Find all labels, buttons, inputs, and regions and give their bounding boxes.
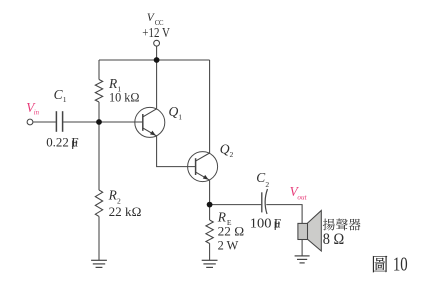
wire R2 bottom xyxy=(98,216,100,260)
wire RE bottom xyxy=(209,243,211,260)
node junction at Vcc rail xyxy=(154,57,160,63)
svg-text:0.22: 0.22 xyxy=(46,134,69,149)
caption figure: tu glyph xyxy=(373,256,388,273)
ground below RE xyxy=(202,260,218,267)
wire Q2 emitter down to output node xyxy=(209,180,211,204)
wire RE top xyxy=(209,205,211,220)
svg-text:2: 2 xyxy=(230,150,234,159)
svg-text:F: F xyxy=(71,134,78,149)
capacitor C2 xyxy=(261,192,263,212)
capacitor C1 xyxy=(55,111,57,132)
svg-text:1: 1 xyxy=(178,113,182,122)
svg-text:2: 2 xyxy=(265,180,269,189)
wire speaker to ground xyxy=(301,240,303,256)
svg-text:+12 V: +12 V xyxy=(142,25,170,40)
wire R1 top xyxy=(98,60,100,80)
ground below R2 xyxy=(91,260,107,267)
wire C1 to node to Q1 base xyxy=(63,121,143,123)
node junction at R1/R2/base xyxy=(96,119,102,125)
svg-text:in: in xyxy=(34,110,40,117)
svg-text:R: R xyxy=(108,188,117,203)
terminal Vin xyxy=(27,119,33,125)
resistor RE xyxy=(206,220,213,243)
svg-text:8 Ω: 8 Ω xyxy=(323,231,345,248)
resistor R1 xyxy=(95,80,102,103)
svg-text:Q: Q xyxy=(169,104,179,119)
resistor R2 xyxy=(95,190,102,216)
svg-text:1: 1 xyxy=(63,95,67,104)
wire top rail xyxy=(99,59,210,61)
wire output node to C2 xyxy=(210,204,262,206)
wire R2 top xyxy=(98,122,100,190)
node junction at Q2 emitter / RE / C2 xyxy=(207,202,213,208)
wire Vcc drop xyxy=(156,46,158,60)
wire input to C1 xyxy=(33,121,56,123)
wire C2 to corner then down to speaker xyxy=(266,205,302,224)
svg-text:R: R xyxy=(217,210,226,225)
svg-text:2 W: 2 W xyxy=(218,237,239,252)
svg-text:10: 10 xyxy=(393,255,408,276)
terminal Vcc xyxy=(154,40,160,46)
svg-text:V: V xyxy=(147,12,155,24)
transistor Q2 xyxy=(188,152,218,182)
svg-text:22 Ω: 22 Ω xyxy=(218,223,245,238)
label speaker chinese yang sheng qi xyxy=(323,218,361,230)
wire Q1 emitter down and right to Q2 base xyxy=(157,136,196,167)
svg-text:Q: Q xyxy=(220,141,230,156)
speaker cone xyxy=(308,211,322,252)
svg-text:out: out xyxy=(297,193,307,201)
wire Q2 collector up to rail xyxy=(209,60,211,153)
svg-text:100: 100 xyxy=(250,215,272,230)
ground below speaker xyxy=(295,256,310,263)
svg-text:F: F xyxy=(274,215,281,230)
svg-text:10 kΩ: 10 kΩ xyxy=(109,90,140,105)
transistor Q1 xyxy=(135,107,165,137)
wire Q1 collector up to rail xyxy=(156,60,158,109)
svg-text:22 kΩ: 22 kΩ xyxy=(109,204,142,219)
svg-text:R: R xyxy=(108,76,117,91)
wire R1 bottom to node xyxy=(98,102,100,122)
speaker driver box xyxy=(298,223,308,239)
